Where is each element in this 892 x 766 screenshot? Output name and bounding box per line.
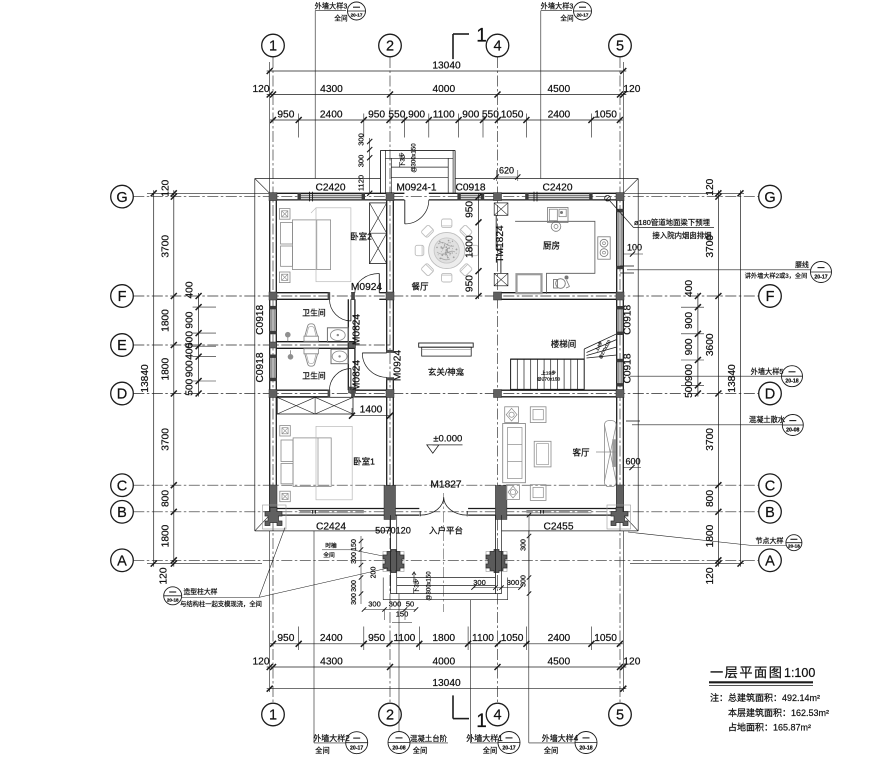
svg-text:900: 900 [185, 311, 196, 328]
svg-text:300: 300 [351, 593, 358, 605]
svg-text:B: B [765, 505, 775, 521]
svg-text:C2455: C2455 [543, 522, 573, 533]
svg-text:C0918: C0918 [623, 353, 634, 383]
svg-text:20-08: 20-08 [786, 428, 799, 434]
svg-text:下3步: 下3步 [413, 578, 421, 593]
svg-text:1: 1 [269, 39, 277, 55]
svg-text:1050: 1050 [594, 633, 617, 644]
svg-text:C0918: C0918 [455, 183, 485, 194]
svg-text:800: 800 [705, 490, 716, 507]
svg-text:1100: 1100 [472, 633, 494, 644]
svg-text:400: 400 [684, 280, 695, 297]
svg-text:全间: 全间 [560, 14, 574, 23]
svg-text:120: 120 [253, 84, 270, 95]
svg-text:外墙大样3: 外墙大样3 [541, 2, 574, 11]
svg-text:楼梯间: 楼梯间 [551, 339, 577, 349]
svg-text:4000: 4000 [432, 656, 455, 667]
svg-text:2400: 2400 [320, 633, 343, 644]
svg-text:1800: 1800 [160, 524, 171, 547]
svg-text:4000: 4000 [432, 84, 455, 95]
svg-text:300: 300 [351, 552, 358, 564]
svg-text:620: 620 [499, 166, 514, 176]
svg-text:E: E [117, 338, 127, 354]
svg-text:@270x150: @270x150 [537, 377, 561, 383]
svg-text:玄关/神龛: 玄关/神龛 [428, 367, 465, 377]
svg-text:120: 120 [705, 178, 716, 195]
svg-text:300: 300 [507, 578, 520, 587]
svg-text:20-17: 20-17 [814, 275, 827, 281]
svg-text:±0.000: ±0.000 [433, 434, 462, 445]
svg-text:3700: 3700 [705, 428, 716, 451]
svg-text:@300x150: @300x150 [412, 143, 418, 173]
svg-text:混凝土台阶: 混凝土台阶 [410, 734, 448, 743]
svg-text:300: 300 [521, 575, 528, 587]
svg-text:150: 150 [396, 610, 409, 619]
svg-text:2: 2 [386, 708, 394, 724]
svg-text:卧室2: 卧室2 [350, 232, 372, 242]
svg-text:3600: 3600 [705, 333, 716, 356]
svg-text:300: 300 [357, 133, 366, 146]
svg-text:3700: 3700 [160, 428, 171, 451]
svg-text:600: 600 [625, 456, 640, 466]
svg-text:20-17: 20-17 [577, 13, 589, 18]
svg-text:900: 900 [462, 109, 479, 120]
svg-text:M0824: M0824 [352, 360, 363, 391]
svg-text:M0924: M0924 [351, 282, 382, 293]
svg-text:950: 950 [277, 633, 294, 644]
svg-text:造型柱大样: 造型柱大样 [184, 587, 218, 596]
svg-text:C0918: C0918 [623, 304, 634, 334]
svg-text:占地面积：165.87m²: 占地面积：165.87m² [728, 722, 811, 733]
svg-text:20-18: 20-18 [167, 597, 179, 602]
svg-text:1:100: 1:100 [784, 666, 815, 680]
svg-text:外墙大样3: 外墙大样3 [315, 2, 348, 11]
svg-text:20-17: 20-17 [350, 746, 363, 752]
svg-text:时榆: 时榆 [325, 542, 337, 550]
svg-text:800: 800 [160, 490, 171, 507]
svg-text:M0824: M0824 [352, 314, 363, 345]
svg-text:全间: 全间 [544, 746, 558, 755]
svg-text:全间: 全间 [315, 746, 329, 755]
svg-text:厨房: 厨房 [543, 241, 560, 251]
svg-text:一层平面图: 一层平面图 [710, 665, 783, 680]
svg-text:A: A [765, 554, 775, 570]
svg-text:4500: 4500 [547, 656, 570, 667]
svg-text:500: 500 [684, 381, 695, 398]
svg-text:C0918: C0918 [255, 304, 266, 334]
svg-text:1050: 1050 [501, 633, 524, 644]
svg-text:13040: 13040 [432, 60, 461, 71]
svg-text:200: 200 [371, 567, 378, 579]
svg-text:2400: 2400 [548, 633, 571, 644]
svg-text:1120: 1120 [357, 175, 366, 191]
svg-text:M0924-1: M0924-1 [396, 183, 437, 194]
svg-text:20-17: 20-17 [502, 745, 515, 751]
svg-text:餐厅: 餐厅 [411, 282, 429, 292]
svg-text:卫生间: 卫生间 [302, 371, 326, 381]
svg-text:腰线: 腰线 [795, 260, 809, 269]
svg-text:1050: 1050 [594, 109, 617, 120]
svg-text:混凝土散水: 混凝土散水 [749, 415, 785, 424]
svg-text:外墙大样2: 外墙大样2 [313, 733, 350, 743]
svg-text:120: 120 [160, 179, 171, 196]
svg-text:950: 950 [277, 109, 294, 120]
svg-text:50: 50 [406, 600, 414, 609]
svg-text:900: 900 [684, 364, 695, 381]
svg-text:120: 120 [159, 567, 170, 584]
svg-text:300: 300 [389, 600, 402, 609]
svg-text:TM1824: TM1824 [495, 225, 506, 263]
svg-text:20-08: 20-08 [392, 745, 405, 751]
svg-text:550: 550 [482, 109, 499, 120]
svg-text:M1827: M1827 [430, 480, 461, 491]
svg-text:13840: 13840 [140, 364, 151, 393]
svg-text:1400: 1400 [360, 405, 383, 416]
svg-text:C: C [117, 478, 127, 494]
svg-text:外墙大样4: 外墙大样4 [542, 733, 579, 743]
svg-text:注：总建筑面积：492.14m²: 注：总建筑面积：492.14m² [710, 692, 820, 703]
svg-text:节点大样: 节点大样 [756, 536, 784, 545]
svg-text:全间: 全间 [334, 14, 348, 23]
svg-text:C2420: C2420 [315, 183, 345, 194]
svg-text:500: 500 [185, 378, 196, 395]
svg-text:400: 400 [185, 342, 196, 359]
svg-text:1800: 1800 [465, 235, 476, 258]
svg-text:4: 4 [493, 39, 501, 55]
svg-text:1: 1 [476, 711, 487, 732]
svg-text:D: D [765, 387, 775, 403]
svg-text:1: 1 [269, 708, 277, 724]
svg-text:5070120: 5070120 [375, 526, 411, 536]
svg-text:入户平台: 入户平台 [429, 526, 463, 536]
svg-text:B: B [117, 505, 127, 521]
svg-text:全间: 全间 [413, 746, 427, 755]
svg-text:950: 950 [368, 109, 385, 120]
svg-text:300: 300 [521, 539, 528, 551]
svg-text:2400: 2400 [320, 109, 343, 120]
svg-text:全间: 全间 [483, 746, 497, 755]
svg-text:卫生间: 卫生间 [302, 308, 326, 318]
svg-text:20-17: 20-17 [351, 13, 363, 18]
svg-text:950: 950 [465, 275, 476, 292]
svg-text:550: 550 [388, 109, 405, 120]
svg-text:G: G [764, 190, 775, 206]
svg-text:G: G [116, 190, 127, 206]
svg-text:13840: 13840 [727, 364, 738, 393]
svg-text:1: 1 [476, 26, 487, 47]
svg-text:120: 120 [623, 656, 640, 667]
svg-text:120: 120 [705, 567, 716, 584]
svg-text:20-18: 20-18 [788, 544, 800, 549]
svg-text:A: A [117, 554, 127, 570]
svg-text:150: 150 [351, 539, 358, 551]
svg-text:接入院内烟囱排烟: 接入院内烟囱排烟 [652, 231, 711, 240]
svg-text:900: 900 [408, 109, 425, 120]
svg-text:120: 120 [623, 84, 640, 95]
svg-text:讲外墙大样2或3，全间: 讲外墙大样2或3，全间 [745, 272, 808, 280]
svg-text:950: 950 [465, 201, 476, 218]
svg-text:1800: 1800 [160, 309, 171, 332]
svg-text:全间: 全间 [323, 551, 335, 559]
svg-text:4: 4 [493, 708, 501, 724]
svg-text:400: 400 [185, 281, 196, 298]
svg-text:3700: 3700 [160, 235, 171, 258]
svg-text:900: 900 [684, 338, 695, 355]
svg-text:900: 900 [185, 360, 196, 377]
svg-text:900: 900 [684, 312, 695, 329]
svg-text:C2424: C2424 [316, 522, 346, 533]
svg-text:120: 120 [253, 656, 270, 667]
svg-text:100: 100 [627, 243, 642, 253]
svg-text:4300: 4300 [320, 84, 343, 95]
svg-text:M0924: M0924 [393, 350, 404, 381]
svg-text:4300: 4300 [320, 656, 343, 667]
svg-text:300: 300 [351, 580, 358, 592]
svg-text:C2420: C2420 [542, 183, 572, 194]
svg-text:20-18: 20-18 [785, 379, 798, 385]
svg-text:上19步: 上19步 [541, 370, 556, 377]
svg-text:1800: 1800 [705, 524, 716, 547]
svg-text:卧室1: 卧室1 [353, 457, 375, 467]
svg-text:1800: 1800 [160, 358, 171, 381]
svg-text:C: C [765, 478, 775, 494]
svg-text:2400: 2400 [548, 109, 571, 120]
svg-text:13040: 13040 [432, 678, 461, 689]
svg-text:ø180管道地面梁下预埋: ø180管道地面梁下预埋 [634, 218, 711, 227]
svg-text:2: 2 [386, 39, 394, 55]
svg-text:300: 300 [368, 600, 381, 609]
svg-text:950: 950 [368, 633, 385, 644]
svg-text:@300x150: @300x150 [427, 571, 433, 601]
svg-text:4500: 4500 [547, 84, 570, 95]
svg-text:本层建筑面积：162.53m²: 本层建筑面积：162.53m² [728, 707, 829, 718]
svg-text:D: D [117, 387, 127, 403]
svg-text:1800: 1800 [432, 633, 455, 644]
svg-text:外墙大样5: 外墙大样5 [751, 367, 784, 376]
svg-text:5: 5 [616, 708, 624, 724]
svg-text:1100: 1100 [433, 109, 455, 120]
svg-text:1050: 1050 [501, 109, 524, 120]
svg-text:300: 300 [357, 155, 366, 168]
svg-text:1100: 1100 [393, 633, 415, 644]
svg-text:20-18: 20-18 [579, 745, 592, 751]
svg-text:客厅: 客厅 [572, 448, 590, 458]
svg-text:5: 5 [616, 39, 624, 55]
svg-text:F: F [118, 289, 127, 305]
svg-text:F: F [766, 289, 775, 305]
svg-text:下3步: 下3步 [399, 152, 407, 167]
svg-text:与结构柱一起支模现浇，全间: 与结构柱一起支模现浇，全间 [180, 599, 262, 608]
svg-text:C0918: C0918 [255, 352, 266, 382]
